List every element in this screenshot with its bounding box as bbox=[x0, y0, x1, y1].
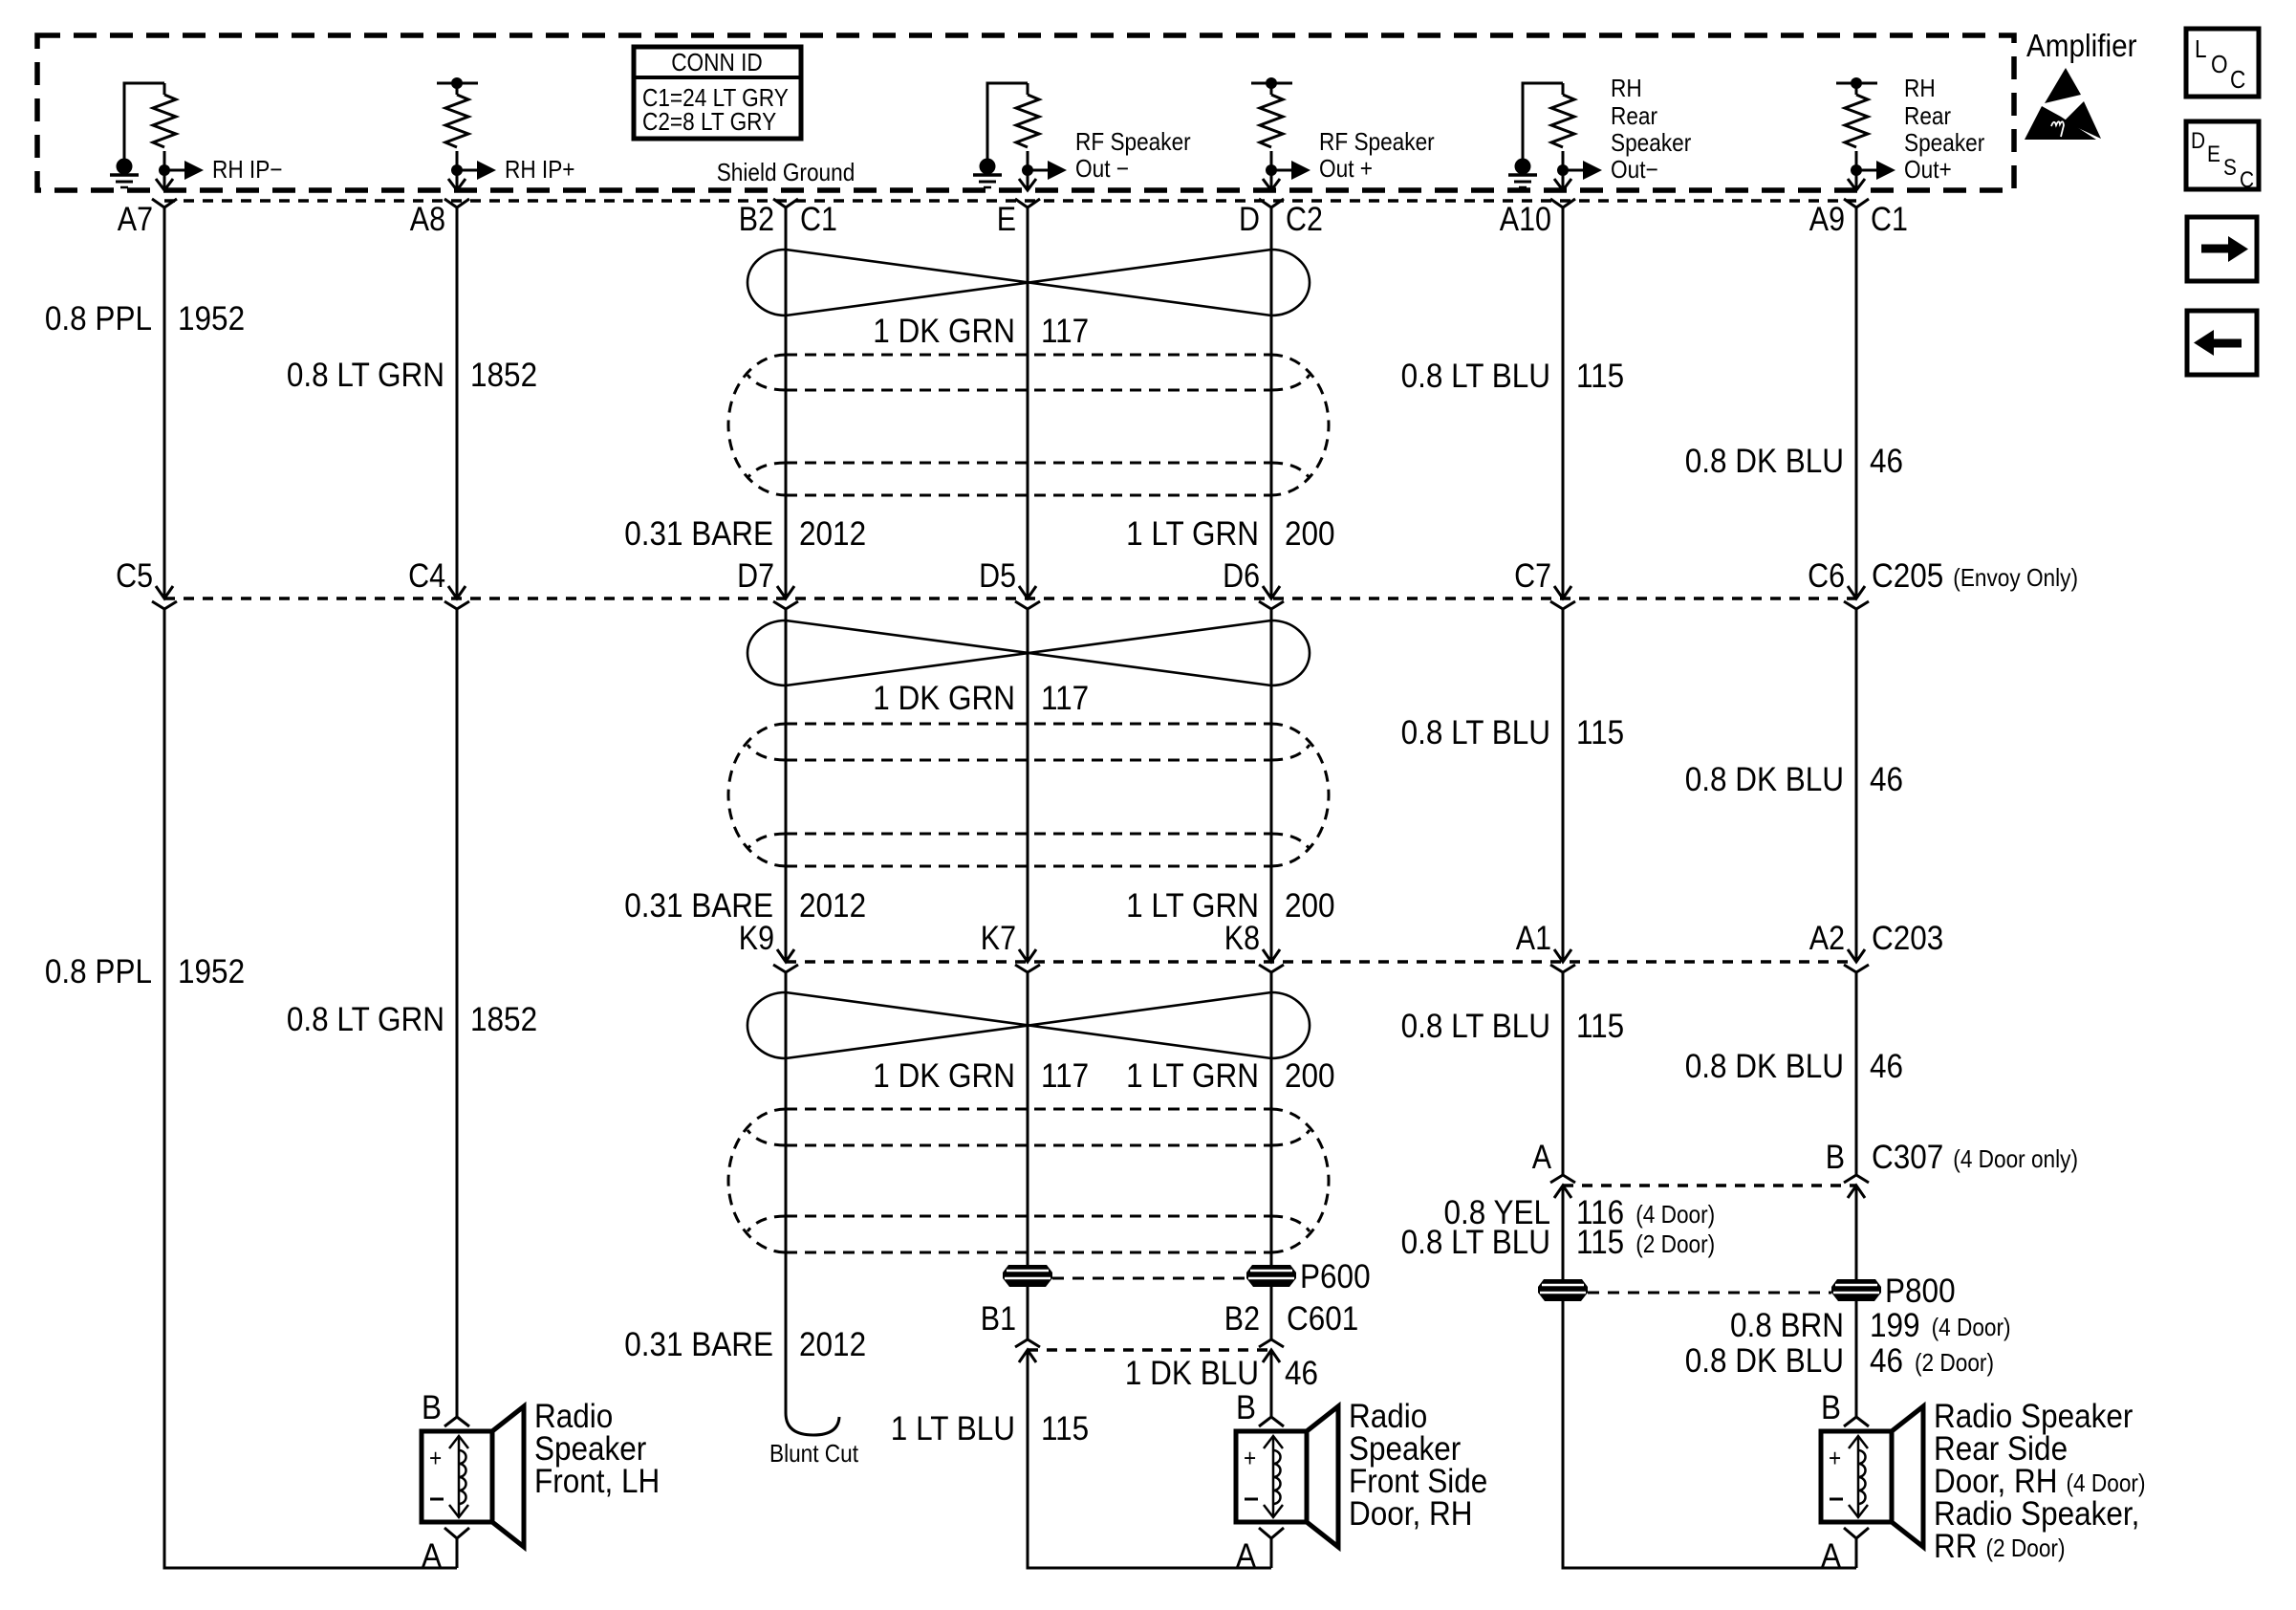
grommet P600 right bbox=[1246, 1265, 1296, 1287]
port label col 4 bbox=[1075, 127, 1191, 183]
svg-text:117: 117 bbox=[1041, 313, 1089, 350]
svg-text:(Envoy Only): (Envoy Only) bbox=[1953, 563, 2078, 592]
wire 115 upper (A10-C7) bbox=[1562, 207, 1565, 598]
svg-text:0.31 BARE: 0.31 BARE bbox=[624, 1326, 773, 1363]
svg-text:C: C bbox=[2230, 65, 2245, 94]
svg-text:C4: C4 bbox=[408, 557, 445, 595]
svg-text:1 LT GRN: 1 LT GRN bbox=[1126, 1057, 1259, 1095]
svg-text:Amplifier: Amplifier bbox=[2026, 28, 2137, 63]
amp exit symbol col 7 bbox=[1855, 170, 1858, 190]
svg-text:C6: C6 bbox=[1808, 557, 1845, 595]
connector line C307 bbox=[1563, 1184, 1856, 1187]
wire 1852 lower (C4-speaker B) bbox=[456, 609, 459, 1417]
svg-text:RH IP+: RH IP+ bbox=[505, 155, 575, 184]
svg-text:B: B bbox=[1236, 1389, 1256, 1426]
svg-text:A8: A8 bbox=[410, 201, 445, 238]
amp exit symbol col 2 bbox=[456, 170, 459, 190]
wire col 3 amp exit fork bbox=[773, 199, 798, 207]
svg-text:2012: 2012 bbox=[799, 515, 866, 553]
svg-text:115: 115 bbox=[1041, 1410, 1089, 1447]
svg-text:0.8 LT BLU: 0.8 LT BLU bbox=[1401, 1224, 1550, 1261]
svg-text:0.8 BRN: 0.8 BRN bbox=[1730, 1307, 1844, 1344]
svg-text:RH IP−: RH IP− bbox=[212, 155, 283, 184]
svg-text:115: 115 bbox=[1576, 1008, 1624, 1045]
svg-text:C: C bbox=[2240, 167, 2254, 193]
svg-text:Out −: Out − bbox=[1075, 154, 1129, 183]
connector symbol C205 col 5 bbox=[1263, 586, 1280, 598]
svg-text:D: D bbox=[2191, 128, 2205, 154]
twisted pair 2 bbox=[786, 620, 1271, 685]
svg-text:46: 46 bbox=[1870, 443, 1903, 480]
svg-text:(2 Door): (2 Door) bbox=[1635, 1229, 1715, 1258]
top junction col 2 bbox=[437, 82, 478, 85]
wire 199 lower (B-speaker B) bbox=[1855, 1186, 1858, 1417]
svg-text:C2: C2 bbox=[1286, 201, 1323, 238]
svg-text:K7: K7 bbox=[981, 920, 1016, 957]
wire 117 mid (D5-K7) bbox=[1027, 609, 1029, 962]
svg-text:RH: RH bbox=[1611, 74, 1642, 102]
svg-text:P600: P600 bbox=[1300, 1258, 1371, 1295]
svg-text:B: B bbox=[1826, 1139, 1845, 1176]
amp exit symbol col 6 bbox=[1562, 170, 1565, 190]
output arrow col 5 bbox=[1266, 164, 1277, 176]
left arrow button bbox=[2187, 311, 2257, 375]
svg-text:C601: C601 bbox=[1287, 1300, 1358, 1338]
svg-text:B: B bbox=[1821, 1389, 1841, 1426]
svg-text:115: 115 bbox=[1576, 358, 1624, 395]
grommet P800 right bbox=[1831, 1279, 1881, 1301]
blunt cut hook bbox=[786, 1413, 839, 1435]
svg-text:C5: C5 bbox=[116, 557, 153, 595]
wire 116 lower (A-speaker A) bbox=[1563, 1186, 1856, 1568]
twisted pair 3 bbox=[786, 992, 1271, 1058]
ground col 1 bbox=[124, 83, 164, 159]
svg-text:0.8 DK BLU: 0.8 DK BLU bbox=[1685, 1048, 1844, 1085]
svg-text:A2: A2 bbox=[1809, 920, 1845, 957]
svg-text:E: E bbox=[997, 201, 1016, 238]
svg-text:0.8 LT GRN: 0.8 LT GRN bbox=[287, 357, 444, 394]
wire 1852 upper (A8-C4) bbox=[456, 207, 459, 598]
ground col 6 bbox=[1523, 83, 1563, 159]
svg-text:117: 117 bbox=[1041, 1057, 1089, 1095]
svg-text:D7: D7 bbox=[737, 557, 774, 595]
output arrow col 1 bbox=[159, 164, 170, 176]
svg-text:A9: A9 bbox=[1809, 201, 1845, 238]
svg-text:RH: RH bbox=[1904, 74, 1936, 102]
wire 2012 mid (D7-K9) bbox=[785, 609, 788, 962]
wire 46 upper (A9-C6) bbox=[1855, 207, 1858, 598]
wire 2012 upper (B2-D7) bbox=[785, 207, 788, 598]
connector symbol C203 bbox=[1019, 949, 1036, 962]
svg-text:(4 Door): (4 Door) bbox=[1635, 1200, 1715, 1229]
svg-text:K9: K9 bbox=[739, 920, 774, 957]
connector symbol C203 bbox=[1554, 949, 1571, 962]
speaker Radio Speaker Front Side Door RH bbox=[1259, 1417, 1284, 1426]
svg-text:1852: 1852 bbox=[470, 1001, 537, 1038]
svg-text:O: O bbox=[2211, 50, 2228, 78]
svg-text:D: D bbox=[1239, 201, 1260, 238]
wire 1952 lower (C5-speaker A) bbox=[164, 609, 457, 1568]
svg-text:Speaker: Speaker bbox=[1611, 128, 1692, 157]
LOC button bbox=[2186, 29, 2259, 97]
connector line C203 bbox=[786, 960, 1856, 964]
svg-text:C1: C1 bbox=[1871, 201, 1908, 238]
port label col 6 bbox=[1611, 74, 1692, 184]
svg-text:A: A bbox=[1236, 1537, 1257, 1575]
svg-text:0.8 PPL: 0.8 PPL bbox=[45, 953, 152, 990]
output arrow col 7 bbox=[1851, 164, 1862, 176]
wire 200 lower (K8-B2) bbox=[1270, 972, 1273, 1339]
resistor col 6 bbox=[1551, 83, 1574, 170]
amp exit symbol col 4 bbox=[1027, 170, 1029, 190]
svg-text:0.8 LT BLU: 0.8 LT BLU bbox=[1401, 1008, 1550, 1045]
svg-text:+: + bbox=[1244, 1444, 1256, 1472]
connector line C1/C2 (amp) bbox=[164, 199, 1856, 203]
svg-text:L: L bbox=[2195, 34, 2207, 63]
svg-text:46: 46 bbox=[1285, 1355, 1318, 1392]
wire 200 upper (D-D6) bbox=[1270, 207, 1273, 598]
svg-text:D5: D5 bbox=[979, 557, 1016, 595]
output arrow col 2 bbox=[451, 164, 463, 176]
connector symbol C307 bbox=[1844, 1175, 1869, 1183]
DESC button bbox=[2186, 121, 2259, 193]
svg-text:1 DK GRN: 1 DK GRN bbox=[873, 1057, 1015, 1095]
svg-text:2012: 2012 bbox=[799, 1326, 866, 1363]
svg-text:199: 199 bbox=[1870, 1307, 1920, 1344]
wire 117 lower (K7-B1) bbox=[1027, 972, 1029, 1339]
connector symbol C205 col 2 bbox=[448, 586, 466, 598]
svg-text:2012: 2012 bbox=[799, 887, 866, 925]
connector symbol C205 col 6 bbox=[1554, 586, 1571, 598]
ground col 4 bbox=[987, 83, 1028, 159]
wire 2012 lower (K9-blunt cut) bbox=[785, 972, 788, 1413]
svg-text:P800: P800 bbox=[1885, 1273, 1956, 1310]
svg-text:Out−: Out− bbox=[1611, 155, 1658, 184]
svg-text:0.31 BARE: 0.31 BARE bbox=[624, 515, 773, 553]
speaker Radio Speaker Rear Side Door RH bbox=[1844, 1417, 1869, 1426]
svg-text:Out +: Out + bbox=[1319, 154, 1373, 183]
wire 46 (B2-speaker B) bbox=[1270, 1350, 1273, 1417]
svg-text:C1: C1 bbox=[800, 201, 837, 238]
svg-text:(4 Door): (4 Door) bbox=[1932, 1313, 2011, 1341]
svg-text:0.8 LT BLU: 0.8 LT BLU bbox=[1401, 714, 1550, 751]
svg-text:(4 Door only): (4 Door only) bbox=[1953, 1144, 2078, 1173]
resistor col 2 bbox=[445, 83, 468, 170]
svg-text:1 LT BLU: 1 LT BLU bbox=[891, 1410, 1015, 1447]
connector line C205 bbox=[164, 597, 1856, 600]
grommet P600 left bbox=[1003, 1265, 1052, 1287]
svg-text:C307: C307 bbox=[1872, 1139, 1943, 1176]
svg-text:C205: C205 bbox=[1872, 557, 1943, 595]
port label col 5 bbox=[1319, 127, 1435, 183]
wire 46 third (A2-B) bbox=[1855, 972, 1858, 1175]
svg-text:Blunt Cut: Blunt Cut bbox=[769, 1439, 859, 1468]
connector symbol C203 bbox=[1848, 949, 1865, 962]
grommet P800 left bbox=[1538, 1279, 1588, 1301]
connector symbol C601 bbox=[1015, 1339, 1040, 1347]
svg-text:1 DK BLU: 1 DK BLU bbox=[1125, 1355, 1259, 1392]
svg-text:1952: 1952 bbox=[178, 953, 245, 990]
ESD symbol bbox=[2025, 68, 2101, 140]
svg-text:RR: RR bbox=[1934, 1528, 1978, 1565]
connector symbol C601 bbox=[1259, 1339, 1284, 1347]
top junction col 5 bbox=[1251, 82, 1292, 85]
svg-text:B: B bbox=[422, 1389, 442, 1426]
svg-text:200: 200 bbox=[1285, 515, 1335, 553]
svg-text:Rear: Rear bbox=[1611, 101, 1657, 130]
connector symbol C203 bbox=[1263, 949, 1280, 962]
wire 115 third (A1-A) bbox=[1562, 972, 1565, 1175]
svg-text:C203: C203 bbox=[1872, 920, 1943, 957]
P800 dashed link bbox=[1588, 1292, 1831, 1295]
shield 2 bbox=[786, 723, 1271, 726]
svg-text:115: 115 bbox=[1576, 714, 1624, 751]
svg-text:A: A bbox=[1821, 1537, 1842, 1575]
output arrow col 6 bbox=[1557, 164, 1569, 176]
svg-text:RF Speaker: RF Speaker bbox=[1075, 127, 1191, 156]
resistor col 1 bbox=[153, 83, 176, 170]
svg-text:0.8 PPL: 0.8 PPL bbox=[45, 300, 152, 337]
svg-text:200: 200 bbox=[1285, 887, 1335, 925]
wire 46 mid (C6-A2) bbox=[1855, 609, 1858, 962]
svg-text:Speaker: Speaker bbox=[1904, 128, 1985, 157]
svg-text:A: A bbox=[422, 1537, 443, 1575]
shield 3 bbox=[786, 1108, 1271, 1111]
wire 115 lower (B1-speaker A) bbox=[1028, 1350, 1271, 1568]
amplifier dashed box bbox=[37, 35, 2014, 190]
svg-text:0.8 LT BLU: 0.8 LT BLU bbox=[1401, 358, 1550, 395]
top junction col 7 bbox=[1836, 82, 1877, 85]
svg-text:Rear: Rear bbox=[1904, 101, 1951, 130]
svg-text:B1: B1 bbox=[981, 1300, 1016, 1338]
resistor col 4 bbox=[1016, 83, 1039, 170]
svg-text:+: + bbox=[1829, 1444, 1841, 1472]
svg-text:B2: B2 bbox=[739, 201, 774, 238]
svg-text:(2 Door): (2 Door) bbox=[1915, 1348, 1994, 1377]
connector symbol C205 col 7 bbox=[1848, 586, 1865, 598]
svg-text:E: E bbox=[2207, 141, 2220, 167]
svg-text:0.8 DK BLU: 0.8 DK BLU bbox=[1685, 761, 1844, 798]
svg-text:1 LT GRN: 1 LT GRN bbox=[1126, 515, 1259, 553]
svg-text:A: A bbox=[1532, 1139, 1552, 1176]
svg-text:A7: A7 bbox=[118, 201, 153, 238]
svg-text:A10: A10 bbox=[1500, 201, 1551, 238]
svg-text:S: S bbox=[2223, 155, 2237, 181]
output arrow col 4 bbox=[1022, 164, 1033, 176]
connector symbol C203 bbox=[777, 949, 794, 962]
P600 dashed link bbox=[1052, 1277, 1246, 1280]
svg-text:115: 115 bbox=[1576, 1224, 1624, 1261]
svg-text:+: + bbox=[429, 1444, 442, 1472]
svg-text:46: 46 bbox=[1870, 761, 1903, 798]
resistor col 5 bbox=[1260, 83, 1283, 170]
amp exit symbol col 5 bbox=[1270, 170, 1273, 190]
svg-text:0.8 DK BLU: 0.8 DK BLU bbox=[1685, 443, 1844, 480]
svg-text:Front, LH: Front, LH bbox=[534, 1463, 660, 1500]
svg-text:K8: K8 bbox=[1224, 920, 1260, 957]
svg-text:200: 200 bbox=[1285, 1057, 1335, 1095]
connector symbol C205 col 4 bbox=[1019, 586, 1036, 598]
svg-text:117: 117 bbox=[1041, 680, 1089, 717]
connector symbol C205 col 3 bbox=[777, 586, 794, 598]
wire 115 mid (C7-A1) bbox=[1562, 609, 1565, 962]
wire 117 upper (E-D5) bbox=[1027, 207, 1029, 598]
svg-text:Out+: Out+ bbox=[1904, 155, 1952, 184]
twisted pair 1 bbox=[786, 250, 1271, 315]
wire 200 mid (D6-K8) bbox=[1270, 609, 1273, 962]
right arrow button bbox=[2187, 217, 2257, 281]
svg-text:1952: 1952 bbox=[178, 300, 245, 337]
svg-text:46: 46 bbox=[1870, 1048, 1903, 1085]
port label col 7 bbox=[1904, 74, 1985, 184]
connector symbol C307 bbox=[1550, 1175, 1575, 1183]
svg-text:D6: D6 bbox=[1223, 557, 1260, 595]
CONN ID box bbox=[634, 47, 801, 139]
svg-text:46: 46 bbox=[1870, 1342, 1903, 1380]
svg-text:Door, RH: Door, RH bbox=[1349, 1495, 1473, 1533]
svg-text:0.8 DK BLU: 0.8 DK BLU bbox=[1685, 1342, 1844, 1380]
svg-text:(2 Door): (2 Door) bbox=[1986, 1534, 2066, 1562]
wire 1952 upper (A7-C5) bbox=[163, 207, 166, 598]
shield 1 bbox=[786, 354, 1271, 357]
svg-text:(4 Door): (4 Door) bbox=[2067, 1469, 2146, 1497]
svg-text:A1: A1 bbox=[1516, 920, 1551, 957]
connector symbol C205 col 1 bbox=[156, 586, 173, 598]
svg-text:RF Speaker: RF Speaker bbox=[1319, 127, 1435, 156]
speaker Radio Speaker Front LH bbox=[444, 1417, 469, 1426]
svg-text:C7: C7 bbox=[1514, 557, 1551, 595]
svg-text:0.8 LT GRN: 0.8 LT GRN bbox=[287, 1001, 444, 1038]
svg-text:Shield Ground: Shield Ground bbox=[717, 158, 856, 186]
svg-text:1852: 1852 bbox=[470, 357, 537, 394]
amp exit symbol col 1 bbox=[163, 170, 166, 190]
svg-text:CONN ID: CONN ID bbox=[671, 48, 763, 76]
connector line C601 bbox=[1028, 1348, 1271, 1352]
svg-text:B2: B2 bbox=[1224, 1300, 1260, 1338]
svg-text:C2=8 LT GRY: C2=8 LT GRY bbox=[642, 107, 776, 136]
resistor col 7 bbox=[1845, 83, 1868, 170]
svg-text:1 DK GRN: 1 DK GRN bbox=[873, 313, 1015, 350]
svg-text:1 DK GRN: 1 DK GRN bbox=[873, 680, 1015, 717]
